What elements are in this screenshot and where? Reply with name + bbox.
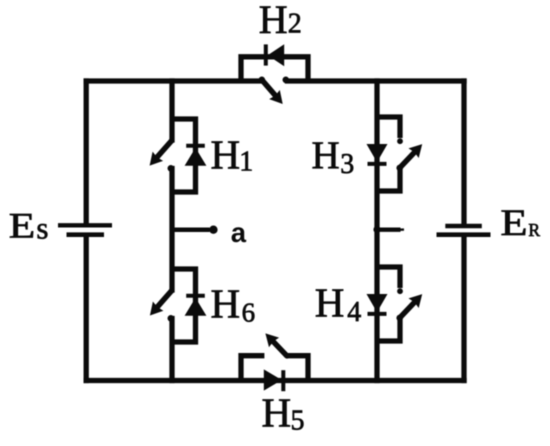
right branch junction dot bbox=[373, 226, 380, 233]
wire bottom bbox=[86, 378, 464, 383]
valve H2 bypass bracket bbox=[241, 57, 308, 81]
label ES bbox=[9, 206, 49, 245]
valve H4 bypass bracket upper bbox=[377, 267, 400, 288]
switch contact dot of H3 bbox=[397, 138, 403, 144]
wire left branch upper bbox=[169, 81, 174, 140]
svg-text:2: 2 bbox=[288, 9, 302, 40]
valve H3 bypass bracket upper bbox=[377, 117, 400, 138]
svg-text:E: E bbox=[500, 203, 527, 243]
svg-text:3: 3 bbox=[340, 149, 354, 180]
svg-text:H: H bbox=[211, 131, 241, 177]
valve H5 bypass bracket left bbox=[241, 356, 264, 381]
label a bbox=[231, 217, 247, 248]
svg-text:E: E bbox=[9, 206, 35, 245]
battery ER positive plate bbox=[437, 232, 491, 237]
valve H3 bypass bracket lower bbox=[377, 168, 400, 191]
valve H5 bypass bracket right bbox=[287, 356, 308, 381]
svg-text:H: H bbox=[315, 280, 345, 326]
diode of H1 bbox=[185, 146, 207, 166]
battery ER negative plate bbox=[445, 224, 482, 228]
wire left branch middle bbox=[169, 169, 174, 291]
valve H1 bypass bracket bbox=[172, 119, 196, 192]
wire left branch lower bbox=[169, 319, 174, 381]
wire top-right segment bbox=[288, 78, 465, 83]
valve H4 bypass bracket lower bbox=[377, 318, 400, 341]
switch blade of H3 bbox=[396, 144, 422, 171]
switch blade of H4 bbox=[396, 294, 422, 321]
switch blade of H5 bbox=[265, 333, 289, 358]
svg-text:1: 1 bbox=[239, 147, 253, 178]
right branch stub wire bbox=[377, 227, 404, 231]
wire right lower bbox=[461, 237, 466, 381]
svg-text:a: a bbox=[231, 217, 247, 248]
label H4 bbox=[315, 280, 361, 328]
svg-text:6: 6 bbox=[242, 298, 256, 328]
battery ES negative plate bbox=[67, 232, 105, 237]
svg-text:H: H bbox=[259, 0, 288, 42]
svg-text:5: 5 bbox=[291, 406, 305, 437]
switch contact dot of H4 bbox=[397, 288, 403, 294]
label H5 bbox=[262, 389, 305, 436]
label H2 bbox=[259, 0, 302, 42]
label H6 bbox=[211, 281, 256, 328]
svg-text:R: R bbox=[528, 220, 540, 240]
diode of H6 bbox=[185, 296, 207, 316]
wire left upper bbox=[84, 81, 89, 223]
svg-text:4: 4 bbox=[347, 297, 361, 328]
diode of H5 bbox=[264, 369, 284, 391]
diode of H4 bbox=[367, 294, 388, 314]
valve H6 bypass bracket bbox=[172, 269, 196, 342]
diode of H2 bbox=[266, 44, 284, 66]
diode of H3 bbox=[367, 144, 388, 164]
switch contact dot of H1 bbox=[168, 165, 175, 172]
wire right upper bbox=[461, 81, 466, 224]
wire left lower bbox=[84, 237, 89, 381]
svg-text:s: s bbox=[36, 210, 48, 245]
svg-text:H: H bbox=[211, 281, 241, 327]
label H3 bbox=[312, 134, 355, 180]
label ER bbox=[500, 203, 540, 243]
label H1 bbox=[211, 131, 254, 177]
switch contact dot of H6 bbox=[168, 315, 175, 322]
node a stub wire bbox=[172, 227, 210, 232]
wire right branch bbox=[374, 81, 379, 381]
switch blade of H6 bbox=[150, 288, 174, 315]
switch contact dot of H2 bbox=[283, 77, 290, 84]
switch blade of H1 bbox=[150, 138, 175, 166]
switch blade of H2 bbox=[259, 77, 283, 105]
wire top-left segment bbox=[86, 78, 260, 83]
node a dot bbox=[209, 226, 217, 234]
svg-text:H: H bbox=[262, 389, 292, 435]
battery ES positive plate bbox=[58, 223, 112, 227]
svg-text:H: H bbox=[312, 134, 340, 177]
